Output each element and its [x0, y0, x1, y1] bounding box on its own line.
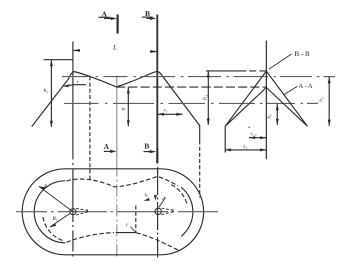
arrow B bottom [144, 151, 153, 153]
svg-text:L: L [112, 44, 117, 52]
dimension a [127, 87, 129, 127]
dimension h2 [50, 60, 52, 127]
pitch line 2 (dash-dot) [64, 102, 318, 104]
waist contour bottom left (dashed) [67, 233, 115, 243]
svg-text:A - A: A - A [299, 83, 313, 90]
dimension h1 [207, 71, 209, 125]
arrow A bottom [104, 150, 113, 152]
section mark B bottom thick [156, 148, 158, 163]
svg-text:r₁: r₁ [164, 108, 168, 114]
svg-text:t₁: t₁ [244, 144, 248, 150]
crest extension line [206, 70, 239, 72]
left cone (dashed) [76, 209, 88, 211]
section line A (grey vertical) [116, 76, 118, 177]
right lobe arc (dashed) [171, 185, 187, 205]
right hole leaders [159, 197, 166, 207]
pitch line 1 (dash-dot) [62, 76, 335, 78]
leader A-A [283, 86, 297, 95]
svg-text:R: R [43, 184, 48, 190]
waist contour top (dashed) [67, 176, 179, 186]
dimension t1.2 [249, 137, 266, 139]
label A top [102, 9, 108, 18]
inner right arc [181, 187, 193, 236]
dimension h2 right [328, 77, 330, 126]
dimension h2 extension [44, 59, 74, 61]
arrow A top [104, 18, 114, 20]
svg-text:A: A [104, 142, 110, 151]
label A bottom [104, 142, 110, 151]
notch vertical (dashed) [135, 206, 137, 233]
leader B-B [269, 54, 292, 69]
dimension r1 [158, 113, 183, 115]
extension left corner [224, 126, 226, 152]
horizontal centerline bottom view [16, 211, 218, 213]
right pin hole [155, 208, 161, 214]
section mark A top thick [116, 15, 118, 34]
svg-text:R₂: R₂ [52, 216, 58, 222]
svg-text:h₂: h₂ [44, 88, 49, 94]
dimension h3 small [276, 104, 278, 125]
notch line [116, 232, 136, 234]
leader R [39, 186, 73, 211]
label c [126, 222, 129, 228]
centerline left pin (vertical) [72, 41, 74, 159]
svg-text:a: a [120, 108, 126, 111]
svg-text:B: B [144, 141, 149, 150]
section B-B profile [225, 71, 307, 126]
svg-text:t₁.₂: t₁.₂ [251, 132, 257, 137]
arrow B top [147, 17, 154, 19]
svg-text:h₁: h₁ [202, 95, 209, 100]
label B bottom [144, 141, 149, 150]
valley projection line (dashed) [116, 86, 266, 88]
hidden edge vertical right (dashed) [199, 141, 201, 198]
right cone (dashed) [162, 208, 173, 210]
leader R2 [50, 213, 70, 227]
svg-text:h₃: h₃ [266, 114, 272, 119]
hidden edge vertical left (dashed) [89, 76, 91, 180]
waist contour bottom right (dashed) [136, 233, 179, 251]
dimension t1 [225, 149, 266, 151]
section A-A profile [225, 88, 307, 127]
plate outer left arc [22, 169, 65, 255]
plate outline top edge [65, 168, 160, 170]
section view centerline [265, 41, 267, 160]
label L [112, 44, 117, 52]
tooth profile (top view) [32, 71, 200, 140]
left pin hole [70, 209, 76, 215]
svg-text:h₂: h₂ [319, 97, 325, 102]
label B top [145, 9, 150, 18]
plate outline bottom edge [65, 254, 160, 256]
svg-text:B - B: B - B [295, 50, 311, 58]
centerline right pin bottom view [157, 167, 159, 258]
section line B (vertical) [156, 15, 158, 164]
dimension L arrows [74, 49, 80, 51]
left lobe arc (dashed) [43, 217, 63, 240]
dimension r [63, 85, 86, 87]
inner left arc [34, 181, 65, 243]
plate outer right arc [161, 169, 204, 255]
